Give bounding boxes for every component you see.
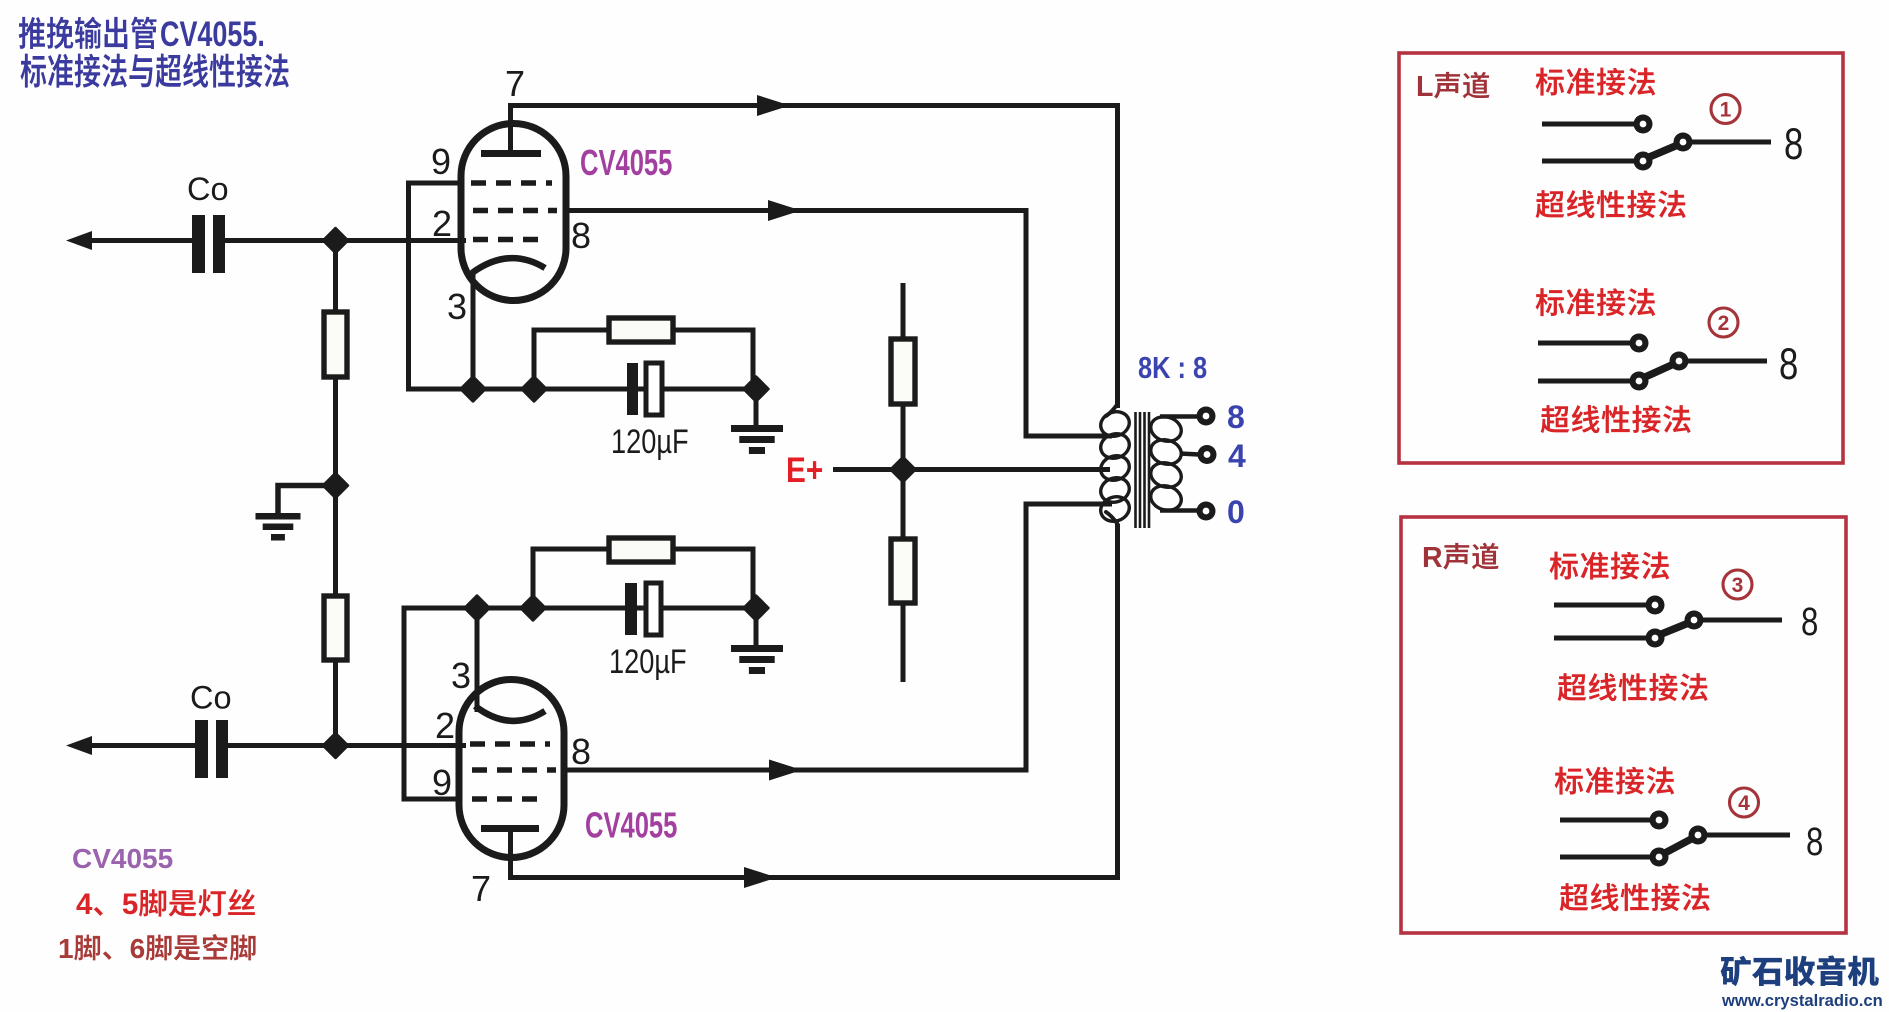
svg-text:3: 3: [447, 286, 467, 327]
tube V2 pin 3 cathode lead: [475, 608, 480, 712]
circled number 2: [1709, 308, 1738, 337]
tube V2 cathode arc: [475, 706, 545, 721]
junction: E+ node: [891, 457, 915, 481]
svg-text:8: 8: [1227, 399, 1245, 435]
svg-text:L: L: [1416, 71, 1433, 103]
junction: cathode lead / rail: [461, 377, 485, 401]
svg-text:3: 3: [1732, 574, 1744, 597]
capacitor C2 120uF plates: [625, 583, 637, 635]
tube V1 anode plate bar: [481, 150, 541, 157]
switch arm: [1663, 837, 1695, 854]
wire: V2 screen vertical to lower tap: [1026, 504, 1112, 773]
svg-text:120µF: 120µF: [611, 422, 689, 461]
resistor R6 (lower dropper): [891, 539, 915, 603]
switch contact wire (standard tap): [1554, 603, 1647, 608]
switch contact wire (ultra-linear tap): [1560, 855, 1651, 860]
label: standard connection (3): [1550, 552, 1579, 580]
junction: divider midpoint: [323, 473, 347, 497]
wire: V1 cathode rail: [406, 387, 759, 392]
node: upper input line arrow: [66, 231, 92, 250]
tube V1 pin 3 cathode lead: [471, 271, 476, 389]
wire: E+ to transformer center tap: [833, 467, 1110, 472]
switch pole terminal: [1685, 611, 1704, 630]
switch contact wire (ultra-linear tap): [1538, 379, 1631, 384]
wire: lower input line (left of Co): [80, 743, 196, 748]
svg-text:8: 8: [1801, 599, 1818, 644]
svg-text:6: 6: [130, 933, 146, 964]
resistor R5 (upper dropper): [891, 339, 915, 404]
svg-text:8: 8: [1784, 120, 1803, 169]
svg-text:9: 9: [432, 762, 452, 803]
junction: rail right end (lower): [744, 596, 768, 620]
tube V2 pin 7 anode lead: [508, 831, 513, 880]
wire: V2 plate to output transformer primary bottom: [508, 875, 1120, 880]
wire: V1 screen vertical to upper tap: [1026, 208, 1112, 436]
terminal: secondary 0: [1197, 502, 1216, 521]
junction: lower input / bias divider: [323, 733, 347, 757]
wire: secondary 0 lead: [1160, 508, 1198, 513]
switch contact terminal (standard): [1630, 334, 1649, 353]
wire: to ground (lower): [754, 608, 759, 648]
switch pole terminal: [1689, 826, 1708, 845]
wire: upper input line to tube V1 grid pin 2: [225, 238, 466, 243]
tube V2 anode plate bar: [481, 825, 539, 832]
wire: primary top vertical: [1115, 103, 1120, 408]
tube V1 grid g3 dashed (pin 2 row): [473, 237, 540, 243]
switch contact terminal (ultra-linear): [1650, 848, 1669, 867]
R channel option box: [1401, 517, 1846, 933]
svg-text:9: 9: [431, 141, 451, 182]
junction: rail / RC network: [522, 377, 546, 401]
wire: V2 cathode rail: [404, 606, 759, 611]
transformer T1 primary winding: [1098, 408, 1133, 440]
wire: V1 plate to output transformer primary top: [508, 103, 1120, 108]
circled number 1: [1711, 95, 1740, 124]
transformer T1 secondary winding: [1148, 413, 1184, 445]
resistor: lower grid-leak resistor: [324, 596, 347, 660]
label: ultra-linear connection (2): [1541, 405, 1570, 433]
switch contact wire (standard tap): [1560, 818, 1651, 823]
svg-text:3: 3: [451, 655, 471, 696]
capacitor Co (upper) plates: [192, 215, 205, 273]
ground symbol (V2 cathode): [731, 645, 783, 652]
capacitor C1 120uF plates: [627, 363, 638, 415]
tube V1 grid g2 dashed (pin 8 screen row): [473, 208, 557, 214]
switch output wire to speaker: [1688, 359, 1767, 364]
switch contact terminal (standard): [1646, 596, 1665, 615]
svg-text:1: 1: [58, 933, 74, 964]
svg-text:1: 1: [1720, 99, 1732, 122]
svg-text:2: 2: [1718, 312, 1730, 335]
tube V2 grid g1 dashed (pin 9 row): [472, 796, 540, 802]
capacitor Co (lower) plates: [195, 720, 208, 778]
wire: divider midpoint to ground: [278, 486, 336, 515]
svg-text:CV4055.: CV4055.: [160, 15, 265, 54]
switch output wire to speaker: [1707, 833, 1790, 838]
site logo: crystalradio: [1721, 956, 1751, 987]
svg-text:Co: Co: [187, 171, 229, 207]
svg-text:Co: Co: [190, 680, 232, 716]
label: standard connection (1): [1536, 68, 1565, 96]
wire: loop up to cathode resistor R3: [534, 330, 753, 389]
wire: V2 pin 8 screen to transformer tap: [564, 768, 1029, 773]
switch output wire to speaker: [1692, 140, 1771, 145]
node: lower input line arrow: [66, 736, 92, 755]
wire: primary bottom vertical: [1115, 524, 1120, 880]
tube V1 cathode arc: [472, 258, 545, 273]
ground symbol (divider midpoint): [256, 513, 301, 520]
switch pole terminal: [1670, 352, 1689, 371]
svg-text:2: 2: [432, 203, 452, 244]
tube V2 envelope (CV4055 lower): [459, 680, 564, 858]
svg-text:4: 4: [76, 888, 93, 921]
svg-text:4: 4: [1738, 792, 1750, 815]
tube V1 grid g1 dashed (pin 9 row): [471, 180, 552, 186]
resistor R3 (V1 cathode bias): [609, 318, 673, 342]
terminal: secondary 4: [1198, 445, 1217, 464]
wire: upper input line (left of Co): [80, 238, 193, 243]
svg-text:8: 8: [571, 731, 591, 772]
svg-text:7: 7: [471, 868, 491, 909]
svg-text:www.crystalradio.cn: www.crystalradio.cn: [1721, 991, 1883, 1010]
switch pole terminal: [1674, 133, 1693, 152]
wire: V1 pin 8 screen to transformer tap: [566, 208, 1029, 213]
junction: rail right end: [744, 377, 768, 401]
junction: upper input / bias divider: [323, 228, 347, 252]
svg-text:CV4055: CV4055: [72, 843, 173, 874]
wire: to ground: [754, 389, 759, 428]
switch contact wire (standard tap): [1542, 122, 1635, 127]
switch contact terminal (ultra-linear): [1630, 372, 1649, 391]
switch arm: [1659, 622, 1691, 635]
svg-text:8K : 8: 8K : 8: [1138, 351, 1207, 386]
svg-text:8: 8: [1779, 340, 1798, 389]
resistor R4 (V2 cathode bias): [609, 538, 673, 562]
switch contact wire (standard tap): [1538, 341, 1631, 346]
arrow on V1 plate wire: [757, 95, 790, 116]
wire: secondary 8-ohm lead: [1160, 414, 1198, 419]
label: standard connection (2): [1536, 288, 1565, 316]
label: ultra-linear connection (1): [1536, 190, 1565, 218]
terminal: secondary 8: [1197, 407, 1216, 426]
switch contact terminal (standard): [1634, 115, 1653, 134]
wire: V1 pin 9 to cathode rail: [409, 183, 462, 389]
switch contact terminal (ultra-linear): [1634, 152, 1653, 171]
junction: rail / RC network (lower): [521, 596, 545, 620]
ground symbol (V1 cathode): [731, 425, 783, 432]
label: standard connection (4): [1555, 767, 1584, 795]
switch contact terminal (ultra-linear): [1646, 629, 1665, 648]
switch arm: [1647, 144, 1680, 158]
arrow on V1 screen wire: [768, 200, 801, 221]
junction: V2 cathode lead / rail: [465, 596, 489, 620]
svg-text:8: 8: [1806, 819, 1823, 864]
svg-text:7: 7: [505, 63, 525, 104]
title line 1: push-pull output tube CV4055: [19, 17, 45, 49]
svg-text:8: 8: [571, 215, 591, 256]
label: ultra-linear connection (3): [1558, 673, 1587, 701]
svg-text:E+: E+: [786, 451, 823, 490]
switch contact wire (ultra-linear tap): [1542, 159, 1635, 164]
svg-text:4: 4: [1228, 438, 1246, 474]
wire: lower input line to tube V2 grid pin 2: [228, 743, 466, 748]
wire: secondary 4-ohm tap lead: [1180, 454, 1199, 455]
arrow on V2 plate wire: [744, 867, 777, 888]
svg-text:120µF: 120µF: [609, 642, 687, 681]
wire: E+ dropping resistor chain: [901, 283, 906, 682]
switch arm: [1643, 363, 1676, 378]
title line 2: standard vs ultra-linear connection: [20, 54, 46, 88]
svg-text:CV4055: CV4055: [580, 143, 672, 183]
switch contact terminal (standard): [1650, 811, 1669, 830]
svg-text:2: 2: [435, 705, 455, 746]
transformer T1 core: [1134, 412, 1137, 528]
wire: grid bias divider vertical: [333, 241, 338, 746]
circled number 4: [1730, 788, 1759, 817]
wire: loop up to cathode resistor R4: [533, 549, 753, 608]
L channel option box: [1399, 53, 1843, 463]
tube V2 grid g2 dashed (pin 8 screen row): [472, 767, 556, 773]
tube V2 grid g3 dashed (pin 2 row): [470, 741, 550, 747]
resistor: upper grid-leak resistor: [324, 312, 347, 377]
svg-text:R: R: [1422, 542, 1443, 574]
svg-text:5: 5: [122, 888, 138, 921]
arrow on V2 screen wire: [769, 760, 802, 781]
tube V1 envelope (CV4055 upper): [461, 124, 566, 301]
switch contact wire (ultra-linear tap): [1554, 636, 1647, 641]
circled number 3: [1723, 570, 1752, 599]
svg-text:0: 0: [1227, 494, 1245, 530]
tube V1 pin 7 anode lead: [508, 103, 513, 151]
label: ultra-linear connection (4): [1560, 883, 1589, 911]
svg-text:CV4055: CV4055: [585, 805, 677, 845]
switch output wire to speaker: [1703, 618, 1782, 623]
wire: V2 pin 9 bracket: [404, 606, 461, 800]
